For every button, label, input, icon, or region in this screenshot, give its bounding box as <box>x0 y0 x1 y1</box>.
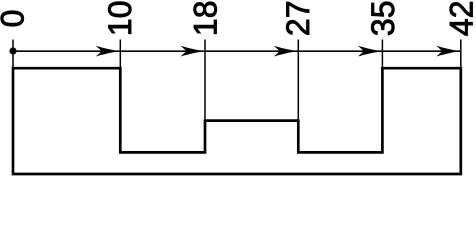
profile outline <box>13 68 461 174</box>
svg-text:42: 42 <box>443 1 476 37</box>
label 35 <box>365 1 401 37</box>
label 27 <box>280 1 316 37</box>
label 18 <box>188 1 224 37</box>
svg-text:35: 35 <box>365 1 401 37</box>
dimension line <box>13 50 461 52</box>
arrowhead at 42 <box>436 46 461 57</box>
svg-text:18: 18 <box>188 1 224 37</box>
arrowhead at 10 <box>96 46 121 57</box>
svg-text:0: 0 <box>0 10 31 28</box>
label 42 <box>443 1 476 37</box>
origin dot <box>9 47 16 54</box>
arrowhead at 35 <box>358 46 383 57</box>
svg-text:10: 10 <box>102 1 138 37</box>
arrowhead at 27 <box>274 46 299 57</box>
extension line tick 10 <box>119 40 121 69</box>
extension line tick 0 <box>12 40 14 69</box>
label 10 <box>102 1 138 37</box>
extension line tick 27 <box>297 40 299 121</box>
extension line tick 18 <box>204 40 206 121</box>
svg-text:27: 27 <box>280 1 316 37</box>
label 0 <box>0 10 31 28</box>
arrowhead at 18 <box>181 46 206 57</box>
extension line tick 42 <box>460 40 462 69</box>
extension line tick 35 <box>381 40 383 69</box>
